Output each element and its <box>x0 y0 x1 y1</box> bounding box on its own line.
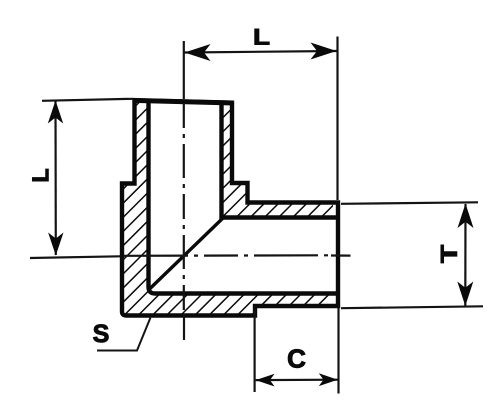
S leader line <box>97 318 151 351</box>
C dimension line <box>256 379 338 382</box>
top L dimension extension line right <box>336 37 338 201</box>
top L left arrow <box>185 44 211 61</box>
left L up arrow <box>48 101 63 124</box>
elbow body cross-section hatched metal region <box>122 100 333 315</box>
left L down arrow <box>48 233 63 256</box>
vertical centerline <box>183 41 185 340</box>
C dimension extension line right <box>337 308 339 394</box>
T dimension extension line top <box>341 202 478 204</box>
label L top <box>255 29 269 44</box>
top L right arrow <box>311 43 337 60</box>
T down arrow <box>457 282 473 307</box>
inner miter corner diagonal <box>149 219 223 290</box>
label L left (rotated) <box>32 169 48 181</box>
top L dimension line <box>185 51 337 53</box>
left L extension line top <box>42 99 133 101</box>
top mouth edge line <box>133 100 234 103</box>
C right arrow <box>319 373 338 386</box>
elbow bore inner outline <box>149 101 339 294</box>
label T (rotated) <box>441 245 457 263</box>
label S <box>93 325 108 343</box>
C dimension extension line left <box>254 310 256 392</box>
T dimension line <box>464 204 466 306</box>
label C <box>288 349 305 367</box>
T up arrow <box>458 204 474 229</box>
elbow outer outline <box>122 100 338 315</box>
T dimension extension line bottom <box>341 306 483 308</box>
left L dimension line <box>54 101 56 255</box>
horizontal centerline <box>30 255 351 258</box>
C left arrow <box>256 374 275 387</box>
